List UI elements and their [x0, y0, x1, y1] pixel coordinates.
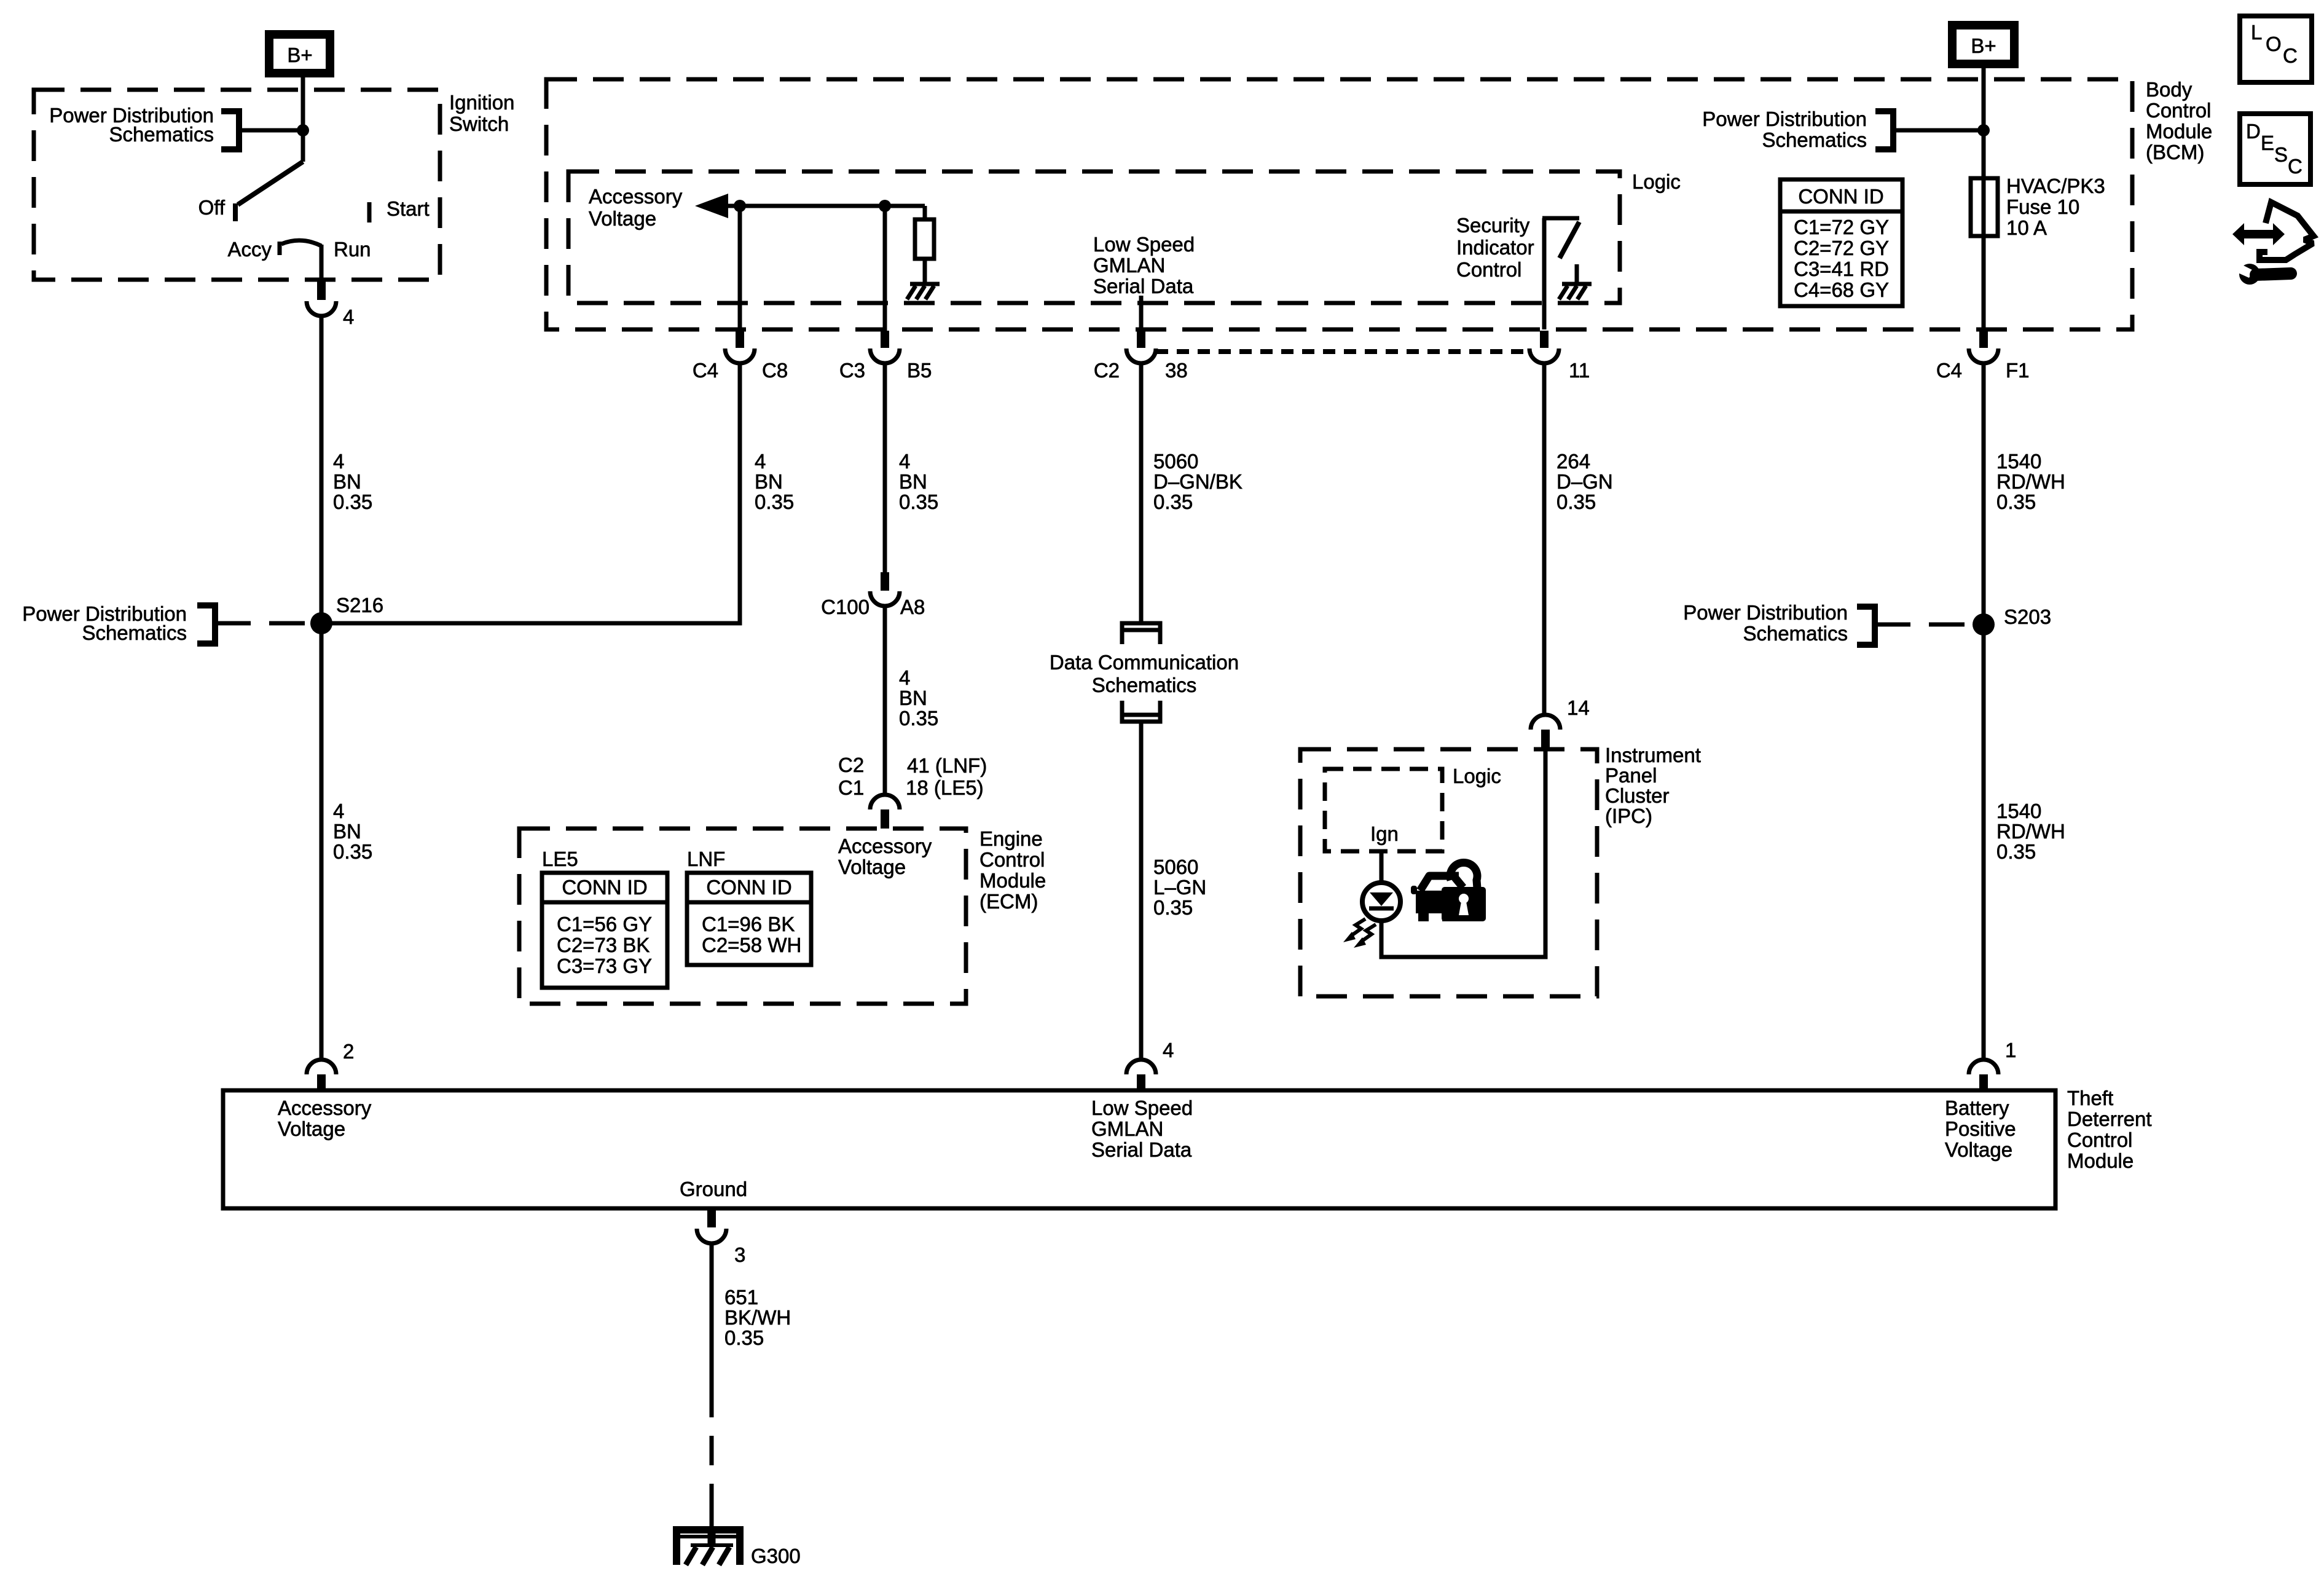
svg-text:Ground: Ground	[680, 1178, 747, 1200]
svg-text:Module: Module	[2146, 120, 2212, 143]
LOC reference box	[2240, 16, 2312, 82]
inline connector C100/A8	[821, 572, 925, 618]
wire label 1540 RD/WH 0.35 (lower)	[1996, 800, 2065, 863]
wire label 4 BN 0.35 (upper left)	[333, 450, 372, 513]
svg-text:BN: BN	[333, 470, 361, 493]
svg-text:Logic: Logic	[1453, 765, 1501, 787]
svg-text:D–GN: D–GN	[1557, 470, 1613, 493]
svg-text:Voltage: Voltage	[1945, 1138, 2012, 1161]
svg-text:5060: 5060	[1153, 450, 1198, 473]
svg-text:(BCM): (BCM)	[2146, 141, 2204, 163]
Accy-Run contact arc	[281, 240, 321, 246]
wire 651 BK/WH 0.35	[710, 1243, 714, 1388]
wire accessory bus down to B5 pin	[883, 206, 887, 331]
svg-text:Fuse 10: Fuse 10	[2006, 195, 2079, 218]
wire label 4 BN 0.35 (B5)	[899, 450, 938, 513]
connector 1 (theft module)	[1969, 1039, 2016, 1091]
svg-text:14: 14	[1567, 696, 1590, 719]
svg-text:Low Speed: Low Speed	[1093, 233, 1195, 256]
svg-text:(IPC): (IPC)	[1605, 805, 1652, 827]
svg-text:C3=41 RD: C3=41 RD	[1794, 258, 1889, 280]
svg-text:C8: C8	[762, 359, 788, 382]
Power Distribution Schematics reference (BCM B+)	[1702, 108, 1984, 151]
svg-text:0.35: 0.35	[333, 840, 372, 863]
ground (security indicator)	[1559, 264, 1592, 299]
svg-text:0.35: 0.35	[755, 490, 794, 513]
svg-text:Accessory: Accessory	[278, 1097, 372, 1119]
label Engine Control Module (ECM)	[979, 827, 1046, 913]
svg-text:LE5: LE5	[542, 848, 578, 870]
svg-text:C1: C1	[838, 776, 864, 799]
svg-text:264: 264	[1557, 450, 1590, 473]
wire label 264 D-GN 0.35	[1557, 450, 1613, 513]
connector C2/C1 (ECM)	[838, 754, 987, 829]
svg-text:Accessory: Accessory	[838, 835, 932, 857]
svg-text:Run: Run	[334, 238, 371, 261]
wire label 5060 L-GN 0.35	[1153, 856, 1206, 919]
label Accessory Voltage (theft)	[278, 1097, 372, 1140]
wire label 651 BK/WH 0.35	[724, 1286, 791, 1349]
svg-text:BN: BN	[333, 820, 361, 843]
Start contact tick	[367, 202, 372, 222]
wire A8 to ECM	[883, 606, 887, 793]
svg-text:C4: C4	[693, 359, 718, 382]
node on accessory bus (C8)	[734, 200, 746, 212]
svg-text:C2=58 WH: C2=58 WH	[702, 934, 801, 956]
svg-text:S203: S203	[2004, 605, 2051, 628]
security indicator switch	[1542, 218, 1579, 329]
wire B+ into BCM	[1982, 68, 1986, 178]
svg-text:C1=96 BK: C1=96 BK	[702, 913, 795, 935]
svg-text:Security: Security	[1456, 214, 1530, 237]
svg-text:0.35: 0.35	[1153, 896, 1193, 919]
svg-text:D: D	[2246, 120, 2261, 143]
Power Distribution Schematics reference (ignition switch)	[49, 104, 303, 149]
connector 14 (IPC)	[1531, 696, 1590, 749]
connector 2 (theft module)	[307, 1040, 354, 1091]
svg-text:0.35: 0.35	[1996, 840, 2036, 863]
svg-text:GMLAN: GMLAN	[1091, 1117, 1163, 1140]
wire accessory bus down to C8 pin	[738, 206, 742, 331]
CONN ID table (ECM LE5)	[542, 873, 667, 988]
B+ terminal (ignition switch)	[269, 34, 330, 73]
svg-text:Power Distribution: Power Distribution	[1683, 601, 1848, 624]
splice S216	[310, 594, 383, 634]
svg-text:Battery: Battery	[1945, 1097, 2009, 1119]
svg-text:C3=73 GY: C3=73 GY	[557, 955, 652, 977]
wire S216 to C8 riser	[321, 363, 740, 623]
svg-text:Schematics: Schematics	[1743, 622, 1848, 645]
svg-text:Power Distribution: Power Distribution	[1702, 108, 1867, 130]
svg-text:10 A: 10 A	[2006, 216, 2047, 239]
svg-text:Serial Data: Serial Data	[1093, 275, 1194, 297]
wire label 1540 RD/WH 0.35 (upper)	[1996, 450, 2065, 513]
svg-text:Off: Off	[198, 196, 226, 219]
svg-text:E: E	[2261, 132, 2274, 154]
LED light emission arrows	[1343, 919, 1376, 948]
svg-text:Accessory: Accessory	[589, 185, 683, 208]
switch blade (ignition, to Off)	[238, 162, 303, 205]
label Body Control Module (BCM)	[2146, 78, 2212, 163]
connector 3 (theft module ground)	[697, 1208, 745, 1266]
label Ignition Switch	[449, 91, 514, 135]
svg-text:CONN ID: CONN ID	[1798, 185, 1883, 208]
svg-text:5060: 5060	[1153, 856, 1198, 878]
svg-text:C4=68 GY: C4=68 GY	[1794, 278, 1889, 301]
svg-text:Voltage: Voltage	[589, 207, 656, 230]
svg-text:C2=72 GY: C2=72 GY	[1794, 237, 1889, 259]
label Low Speed GMLAN Serial Data (theft)	[1091, 1097, 1193, 1161]
svg-text:BN: BN	[755, 470, 783, 493]
wire label 4 BN 0.35 (C8)	[755, 450, 794, 513]
wire Run pin	[320, 245, 324, 281]
label Low Speed GMLAN Serial Data (BCM)	[1093, 233, 1195, 297]
svg-text:RD/WH: RD/WH	[1996, 820, 2065, 843]
wire label 4 BN 0.35 (lower left)	[333, 800, 372, 863]
svg-text:Panel: Panel	[1605, 764, 1657, 787]
wire LED to pin 14	[1381, 749, 1545, 957]
svg-text:Voltage: Voltage	[278, 1117, 345, 1140]
svg-text:Schematics: Schematics	[109, 123, 214, 146]
svg-text:Deterrent: Deterrent	[2067, 1108, 2152, 1130]
connector C4/F1 (BCM)	[1936, 331, 2030, 382]
svg-text:(ECM): (ECM)	[979, 890, 1038, 913]
BCM outer dashed box	[546, 79, 2132, 329]
LED indicator (security lamp)	[1362, 883, 1400, 921]
car security icon	[1411, 876, 1459, 921]
svg-text:C: C	[2288, 155, 2302, 178]
connector C2/38 (BCM)	[1094, 331, 1188, 382]
wire F1 down	[1982, 363, 1986, 1058]
svg-text:D–GN/BK: D–GN/BK	[1153, 470, 1242, 493]
label Battery Positive Voltage (theft)	[1945, 1097, 2016, 1161]
svg-text:Start: Start	[387, 197, 430, 220]
svg-text:RD/WH: RD/WH	[1996, 470, 2065, 493]
svg-text:2: 2	[343, 1040, 354, 1063]
DESC reference box	[2240, 114, 2310, 184]
B+ terminal (BCM)	[1952, 25, 2014, 64]
svg-text:4: 4	[343, 305, 354, 328]
svg-text:Low Speed: Low Speed	[1091, 1097, 1193, 1119]
svg-text:BN: BN	[899, 687, 927, 709]
svg-text:3: 3	[734, 1243, 745, 1266]
Ign dashed box (IPC)	[1325, 769, 1442, 851]
svg-text:Switch: Switch	[449, 112, 509, 135]
ground G300	[677, 1513, 801, 1567]
connector C3/B5 (BCM)	[839, 331, 932, 382]
node junction on B+ wire (BCM)	[1977, 124, 1990, 136]
svg-text:Module: Module	[2067, 1149, 2134, 1172]
svg-text:C3: C3	[839, 359, 865, 382]
svg-text:C2=73 BK: C2=73 BK	[557, 934, 650, 956]
dotted connector line C2 to 11	[1156, 349, 1529, 354]
connector pin 4 (ignition switch)	[307, 281, 354, 328]
svg-text:Data Communication: Data Communication	[1050, 651, 1239, 674]
wire 4 BN 0.35 (ignition Run to S216 to theft module)	[320, 316, 324, 1058]
Off contact tick	[233, 203, 238, 221]
svg-text:0.35: 0.35	[1996, 490, 2036, 513]
svg-text:41 (LNF): 41 (LNF)	[907, 754, 987, 777]
connector 11 (BCM)	[1529, 331, 1590, 382]
svg-text:B+: B+	[287, 44, 312, 66]
wire label 5060 D-GN/BK 0.35	[1153, 450, 1242, 513]
node junction on B+ wire (ignition)	[297, 124, 309, 136]
svg-text:C1=56 GY: C1=56 GY	[557, 913, 652, 935]
node on accessory bus (B5)	[879, 200, 891, 212]
accessory voltage arrow	[695, 194, 728, 218]
svg-text:Ignition: Ignition	[449, 91, 514, 114]
CONN ID table (ECM LNF)	[687, 873, 811, 965]
svg-text:Schematics: Schematics	[1092, 674, 1197, 696]
svg-text:0.35: 0.35	[1557, 490, 1596, 513]
splice S203	[1973, 605, 2051, 636]
svg-text:BN: BN	[899, 470, 927, 493]
svg-text:GMLAN: GMLAN	[1093, 254, 1165, 277]
svg-text:0.35: 0.35	[899, 490, 938, 513]
fuse HVAC/PK3 Fuse 10 10A	[1971, 175, 2105, 239]
off-page reference Data Communication Schematics	[1050, 623, 1239, 722]
svg-text:0.35: 0.35	[899, 707, 938, 730]
wire accessory voltage bus	[728, 204, 925, 208]
wire GMLAN stub inside BCM	[1139, 296, 1144, 329]
svg-text:1540: 1540	[1996, 800, 2041, 822]
svg-text:C2: C2	[838, 754, 864, 776]
svg-text:A8: A8	[900, 596, 925, 618]
wire label 4 BN 0.35 (A8-ECM)	[899, 666, 938, 730]
svg-text:38: 38	[1165, 359, 1188, 382]
svg-text:4: 4	[1163, 1039, 1174, 1061]
svg-text:4: 4	[755, 450, 766, 473]
svg-text:G300: G300	[751, 1545, 801, 1567]
wire B5 down to C100	[883, 363, 887, 572]
label Security Indicator Control	[1456, 214, 1534, 281]
svg-text:S: S	[2274, 143, 2288, 166]
label Theft Deterrent Control Module	[2067, 1087, 2152, 1172]
connector C4/C8 (BCM)	[693, 331, 788, 382]
wire Ign to LED	[1380, 851, 1384, 881]
svg-text:Theft: Theft	[2067, 1087, 2113, 1109]
svg-text:Control: Control	[979, 848, 1045, 871]
svg-text:Module: Module	[979, 869, 1046, 892]
ignition switch dashed box	[34, 90, 440, 280]
svg-text:B+: B+	[1971, 34, 1996, 57]
BCM logic dashed box	[568, 171, 1620, 303]
svg-text:4: 4	[333, 800, 344, 822]
svg-text:O: O	[2266, 33, 2282, 55]
svg-text:Schematics: Schematics	[1762, 128, 1867, 151]
svg-text:Instrument: Instrument	[1605, 744, 1701, 766]
label Accessory Voltage (ECM)	[838, 835, 932, 878]
svg-text:Cluster: Cluster	[1605, 784, 1670, 807]
svg-text:Indicator: Indicator	[1456, 236, 1534, 259]
svg-text:F1: F1	[2006, 359, 2030, 382]
wire data comm to theft module	[1139, 720, 1144, 1058]
wire fuse to F1	[1982, 236, 1986, 329]
svg-text:0.35: 0.35	[333, 490, 372, 513]
svg-text:L: L	[2251, 21, 2262, 44]
connector 4 (theft module)	[1126, 1039, 1174, 1091]
Power Distribution Schematics reference (S203)	[1683, 601, 1974, 645]
svg-text:C: C	[2283, 44, 2298, 67]
svg-text:0.35: 0.35	[724, 1326, 764, 1349]
label Instrument Panel Cluster (IPC)	[1605, 744, 1701, 827]
wire 38 to data comm	[1139, 363, 1144, 624]
svg-text:C2: C2	[1094, 359, 1120, 382]
svg-text:Positive: Positive	[1945, 1117, 2016, 1140]
svg-text:Ign: Ign	[1370, 822, 1399, 845]
wire B+ to ignition switch pivot	[301, 77, 305, 162]
svg-text:Control: Control	[2067, 1128, 2132, 1151]
wire 651 dashed section	[710, 1388, 714, 1513]
svg-text:1: 1	[2005, 1039, 2016, 1061]
wire 11 to IPC	[1542, 363, 1547, 714]
svg-text:1540: 1540	[1996, 450, 2041, 473]
svg-text:CONN ID: CONN ID	[706, 876, 791, 899]
svg-text:LNF: LNF	[687, 848, 725, 870]
svg-text:C100: C100	[821, 596, 870, 618]
svg-text:CONN ID: CONN ID	[562, 876, 647, 899]
label Accessory Voltage (BCM)	[589, 185, 683, 230]
svg-text:4: 4	[333, 450, 344, 473]
svg-text:C1=72 GY: C1=72 GY	[1794, 216, 1889, 238]
svg-text:S216: S216	[336, 594, 383, 616]
svg-text:B5: B5	[907, 359, 932, 382]
ground (BCM internal)	[907, 284, 940, 299]
ECM dashed box	[519, 829, 966, 1004]
svg-text:Logic: Logic	[1632, 170, 1681, 193]
svg-text:0.35: 0.35	[1153, 490, 1193, 513]
svg-text:651: 651	[724, 1286, 758, 1309]
svg-text:BK/WH: BK/WH	[724, 1306, 791, 1329]
svg-text:18 (LE5): 18 (LE5)	[906, 776, 984, 799]
svg-text:Voltage: Voltage	[838, 856, 906, 878]
service information icon (double arrow, outline, wrench)	[2232, 202, 2314, 285]
padlock icon	[1442, 862, 1486, 921]
svg-text:Control: Control	[1456, 258, 1521, 281]
svg-text:4: 4	[899, 666, 910, 689]
svg-text:Control: Control	[2146, 99, 2211, 122]
Power Distribution Schematics reference (S216)	[22, 602, 312, 644]
theft deterrent module box	[223, 1090, 2055, 1208]
svg-text:Engine: Engine	[979, 827, 1043, 850]
svg-text:4: 4	[899, 450, 910, 473]
svg-text:Serial Data: Serial Data	[1091, 1138, 1192, 1161]
svg-text:Body: Body	[2146, 78, 2192, 101]
svg-text:Schematics: Schematics	[82, 621, 187, 644]
svg-text:Accy: Accy	[227, 238, 272, 261]
Accy contact tick	[278, 242, 282, 255]
CONN ID table (BCM)	[1780, 179, 1902, 306]
IPC dashed box	[1300, 749, 1597, 996]
svg-text:C4: C4	[1936, 359, 1962, 382]
svg-text:L–GN: L–GN	[1153, 876, 1206, 899]
svg-text:HVAC/PK3: HVAC/PK3	[2006, 175, 2105, 197]
svg-text:11: 11	[1569, 359, 1590, 382]
resistor (BCM pull-up)	[915, 206, 934, 282]
